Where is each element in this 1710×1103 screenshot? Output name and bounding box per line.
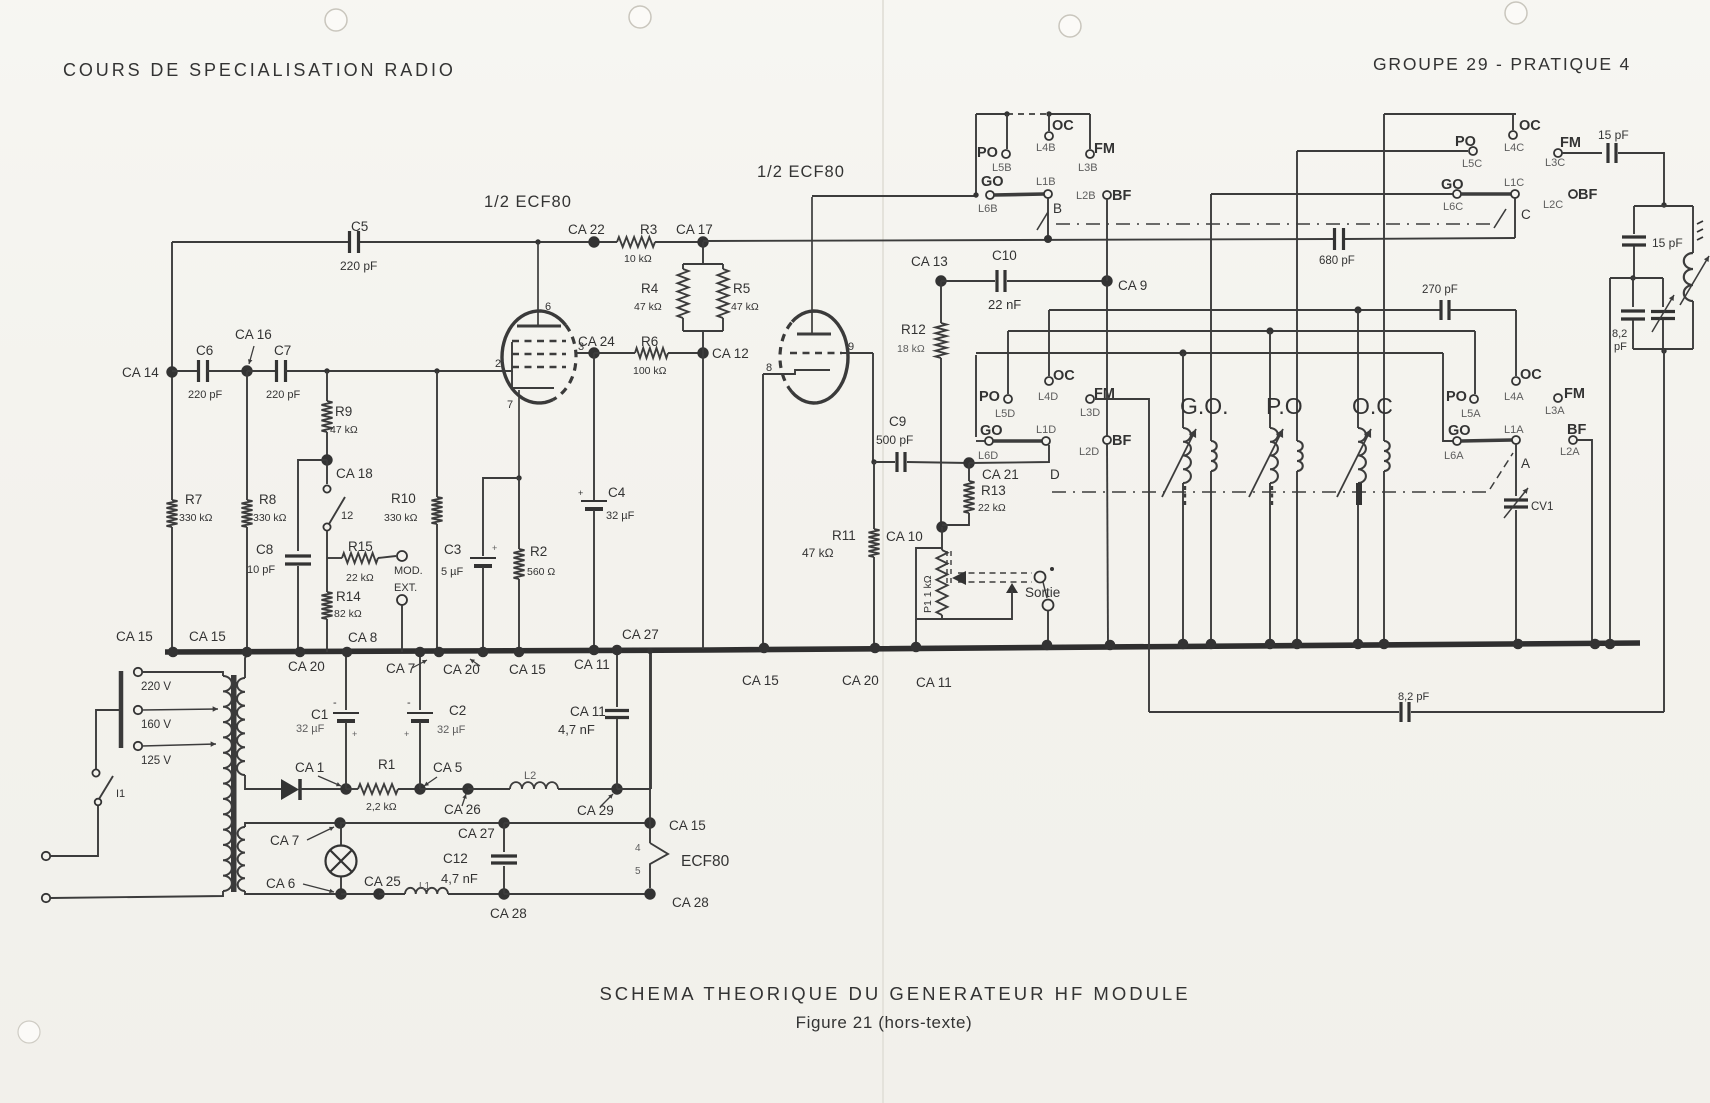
wire lamp bottom lead bbox=[340, 877, 342, 894]
wire G.O. left coil top bbox=[1182, 353, 1184, 428]
svg-text:L4A: L4A bbox=[1504, 391, 1524, 403]
capacitor C10 22nF bbox=[995, 270, 998, 292]
wire OC coil right column upper bbox=[1383, 114, 1385, 441]
wire OC-A column bbox=[1515, 310, 1517, 376]
svg-text:12: 12 bbox=[341, 510, 353, 522]
svg-text:+: + bbox=[404, 729, 409, 739]
svg-text:C7: C7 bbox=[274, 343, 291, 358]
wire stack coil to bottom bar bbox=[1692, 301, 1694, 349]
wire Sortie to bus bbox=[1047, 610, 1049, 644]
wire L1A to CV1 bbox=[1515, 444, 1517, 496]
wire bus to C1 bbox=[345, 652, 347, 710]
gang linkage A wiper diag bbox=[1490, 453, 1513, 489]
O.C core bbox=[1356, 483, 1362, 505]
wire to R11 bbox=[873, 462, 875, 529]
svg-text:22 kΩ: 22 kΩ bbox=[346, 572, 374, 584]
svg-text:FM: FM bbox=[1564, 386, 1585, 402]
wire R7 to bus bbox=[171, 527, 173, 652]
wire CA13 to C10 bbox=[941, 280, 995, 282]
resistor R7 330k bbox=[167, 500, 178, 527]
svg-text:GROUPE 29 - PRATIQUE 4: GROUPE 29 - PRATIQUE 4 bbox=[1373, 54, 1631, 74]
inductor G.O. right coil bbox=[1211, 441, 1217, 471]
svg-text:BF: BF bbox=[1112, 188, 1131, 204]
svg-text:R10: R10 bbox=[391, 491, 416, 506]
svg-text:C12: C12 bbox=[443, 851, 468, 866]
wiper mark B bbox=[1037, 212, 1048, 230]
wire C2 to CA5 bbox=[419, 722, 421, 789]
wire CA26 to L2 bbox=[468, 788, 510, 790]
resistor R2 560 bbox=[514, 549, 525, 579]
svg-text:CA 15: CA 15 bbox=[509, 662, 546, 677]
capacitor C4 32uF bbox=[581, 500, 607, 502]
transformer core bbox=[231, 675, 237, 892]
contact OC L4A bbox=[1512, 377, 1520, 385]
wire CA5 to CA26 bbox=[420, 788, 468, 790]
lamp bbox=[326, 846, 357, 877]
node CA 12 bbox=[697, 347, 708, 358]
capacitor 270 pF bbox=[1439, 300, 1442, 320]
wire C7 to tube pin2 bbox=[285, 370, 503, 372]
tube V1 grid1 lead inner bbox=[503, 342, 512, 371]
svg-text:A: A bbox=[1521, 456, 1530, 471]
node CA 28 right bbox=[644, 888, 655, 899]
contact OC L4D bbox=[1045, 377, 1053, 385]
wire R11 to bus bbox=[873, 557, 875, 650]
svg-text:160 V: 160 V bbox=[141, 719, 171, 731]
node CA 13 bbox=[935, 275, 946, 286]
svg-text:R4: R4 bbox=[641, 281, 659, 296]
junction B top OC bbox=[1046, 111, 1051, 116]
bus junction bbox=[612, 645, 623, 656]
svg-text:47 kΩ: 47 kΩ bbox=[330, 424, 358, 436]
bus junction bbox=[342, 647, 353, 658]
svg-text:L3A: L3A bbox=[1545, 405, 1565, 417]
svg-text:CA 14: CA 14 bbox=[122, 365, 159, 380]
wire to OC-C bbox=[1512, 114, 1514, 130]
svg-text:15 pF: 15 pF bbox=[1652, 236, 1683, 250]
svg-text:SCHEMA THEORIQUE DU GENERATEUR: SCHEMA THEORIQUE DU GENERATEUR HF MODULE bbox=[599, 983, 1190, 1004]
svg-text:L3C: L3C bbox=[1545, 157, 1565, 169]
tube V1 envelope dashed part bbox=[553, 325, 576, 400]
svg-text:CA 20: CA 20 bbox=[443, 662, 480, 677]
wire 15pF to stack top bbox=[1618, 153, 1664, 203]
resistor R8 330k bbox=[242, 500, 253, 527]
wire stack1 right upper bbox=[1692, 206, 1694, 253]
svg-text:P.O: P.O bbox=[1266, 393, 1303, 419]
wire bank B top bar dashed bbox=[1007, 113, 1049, 115]
wire heater bottom left bbox=[245, 891, 341, 894]
wire to R5 bbox=[722, 264, 724, 269]
svg-text:L6C: L6C bbox=[1443, 201, 1463, 213]
wire bank B top bar right bbox=[1049, 113, 1090, 115]
switch S12 blade bbox=[329, 497, 345, 524]
wire stack bottom bar bbox=[1633, 348, 1693, 350]
capacitor C11 4.7nF bbox=[605, 709, 629, 712]
node CA 22 bbox=[588, 236, 599, 247]
svg-text:CA 9: CA 9 bbox=[1118, 278, 1147, 293]
svg-text:CA 1: CA 1 bbox=[295, 760, 324, 775]
svg-text:CA 28: CA 28 bbox=[490, 906, 527, 921]
resistor R10 330k bbox=[432, 497, 443, 524]
wire varcap to bottom bar bbox=[1662, 320, 1664, 349]
svg-text:100 kΩ: 100 kΩ bbox=[633, 365, 667, 377]
P1 wiper terminal bbox=[1035, 572, 1046, 583]
bus junction bbox=[1178, 639, 1189, 650]
junction bank B anode feed bbox=[973, 192, 978, 197]
svg-text:R5: R5 bbox=[733, 281, 750, 296]
wire CA24 down to C4 bbox=[593, 353, 595, 500]
wire CA10 to P1 bbox=[941, 527, 943, 550]
svg-text:CA 13: CA 13 bbox=[911, 254, 948, 269]
node CA 17 bbox=[697, 236, 708, 247]
svg-text:330 kΩ: 330 kΩ bbox=[253, 512, 287, 524]
svg-text:BF: BF bbox=[1578, 187, 1597, 203]
junction R9 top bbox=[324, 368, 329, 373]
tube V2 envelope dashed part bbox=[780, 322, 792, 392]
wire C11 to CA29 bbox=[616, 719, 618, 789]
wire grid rail to R9 bbox=[326, 371, 328, 401]
wire CA16 to C7 bbox=[247, 370, 277, 372]
junction stack bottom bbox=[1661, 348, 1666, 353]
tube V1 screen bar bbox=[517, 325, 561, 328]
svg-text:FM: FM bbox=[1094, 141, 1115, 157]
wire bus to C2 bbox=[419, 652, 421, 710]
contact L1C bbox=[1511, 190, 1519, 198]
svg-text:500 pF: 500 pF bbox=[876, 433, 913, 447]
wire lamp top lead bbox=[340, 823, 342, 845]
wire bus to CA15/heater bbox=[649, 651, 651, 843]
terminal mains 2 bbox=[42, 894, 50, 902]
svg-text:CA 7: CA 7 bbox=[386, 661, 415, 676]
resistor R5 47k bbox=[718, 269, 729, 318]
contact L1A bbox=[1512, 436, 1520, 444]
bus junction bbox=[1590, 639, 1601, 650]
tube V1 pin 6 lead bbox=[537, 242, 539, 326]
svg-text:L1D: L1D bbox=[1036, 424, 1056, 436]
wire to R15 bbox=[327, 557, 342, 559]
svg-text:L4D: L4D bbox=[1038, 391, 1058, 403]
arrow CA16 bbox=[249, 346, 254, 364]
contact FM L3B bbox=[1086, 150, 1094, 158]
svg-text:P1 1 kΩ: P1 1 kΩ bbox=[922, 575, 934, 613]
contact PO L5D bbox=[1004, 395, 1012, 403]
bus junction bbox=[1353, 639, 1364, 650]
tube V2 grid lead bbox=[842, 352, 873, 354]
wire L1 to CA28 bbox=[448, 893, 504, 895]
capacitor 8.2 pF bottom bbox=[1399, 702, 1402, 722]
wire wiper to Sortie bbox=[1043, 582, 1047, 598]
svg-text:COURS DE SPECIALISATION RADIO: COURS DE SPECIALISATION RADIO bbox=[63, 60, 456, 80]
node CA 25 bbox=[373, 888, 384, 899]
svg-text:4,7 nF: 4,7 nF bbox=[558, 722, 595, 737]
svg-text:82 kΩ: 82 kΩ bbox=[334, 608, 362, 620]
tube V2 anode bar bbox=[797, 333, 831, 336]
contact GO L6B bbox=[986, 191, 994, 199]
wiper mark bbox=[1050, 567, 1054, 571]
junction B top PO bbox=[1004, 111, 1009, 116]
P1 top dashes 2 bbox=[950, 551, 952, 585]
svg-text:MOD.: MOD. bbox=[394, 565, 423, 577]
tube V1 grid row 2 bbox=[512, 353, 566, 355]
junction B on HT rail bbox=[1044, 235, 1052, 243]
svg-text:CA 15: CA 15 bbox=[742, 673, 779, 688]
svg-text:EXT.: EXT. bbox=[394, 582, 417, 594]
wire to R2 bbox=[518, 478, 520, 549]
svg-text:R13: R13 bbox=[981, 483, 1006, 498]
rail OC 270pF left bbox=[1049, 309, 1441, 311]
contact PO L5B bbox=[1002, 150, 1010, 158]
capacitor 15 pF stack bbox=[1622, 235, 1646, 238]
wire FM-C to 15pF bbox=[1562, 152, 1602, 154]
svg-text:22 nF: 22 nF bbox=[988, 297, 1021, 312]
capacitor C12 4.7nF bbox=[491, 854, 517, 857]
node CA 27 lamp bbox=[498, 817, 509, 828]
svg-text:GO: GO bbox=[981, 174, 1004, 190]
svg-text:L2C: L2C bbox=[1543, 199, 1563, 211]
wire R9 to CA18 node bbox=[326, 432, 328, 460]
svg-text:R15: R15 bbox=[348, 539, 373, 554]
contact PO L5C bbox=[1469, 147, 1477, 155]
wire G.O. right coil to bus bbox=[1210, 471, 1212, 644]
svg-text:47 kΩ: 47 kΩ bbox=[731, 301, 759, 313]
wire R4 to bottom bar bbox=[682, 318, 684, 331]
svg-text:pF: pF bbox=[1614, 341, 1627, 353]
svg-text:C6: C6 bbox=[196, 343, 213, 358]
terminal 125V bbox=[134, 742, 142, 750]
bus junction bbox=[168, 647, 179, 658]
wire stack bottom to loop bbox=[1663, 349, 1665, 712]
transformer heater winding bbox=[238, 827, 245, 891]
svg-text:CA 27: CA 27 bbox=[622, 627, 659, 642]
svg-text:L5A: L5A bbox=[1461, 408, 1481, 420]
inductor L right stack bbox=[1684, 253, 1693, 301]
contact FM L3D bbox=[1086, 395, 1094, 403]
node CA 24 bbox=[588, 347, 599, 358]
svg-text:FM: FM bbox=[1560, 135, 1581, 151]
P1 top dashes bbox=[946, 551, 948, 585]
arrow CA1 bbox=[318, 776, 341, 786]
node CA 9 bbox=[1101, 275, 1112, 286]
svg-text:L1B: L1B bbox=[1036, 176, 1056, 188]
tube V1 grid row 3 bbox=[512, 366, 566, 368]
tube V2 envelope bbox=[792, 311, 848, 403]
wire to PO-B bbox=[1006, 114, 1008, 149]
junction stack top bbox=[1661, 202, 1666, 207]
bus junction bbox=[1105, 640, 1116, 651]
svg-text:4,7 nF: 4,7 nF bbox=[441, 871, 478, 886]
wire 8.2pF to bottom bar bbox=[1632, 320, 1634, 349]
wire C1 to CA1 bbox=[345, 722, 347, 789]
svg-text:CA 15: CA 15 bbox=[189, 629, 226, 644]
wire C3 to bus bbox=[482, 567, 484, 652]
wire R13 to CA10 bbox=[942, 513, 969, 525]
wire stack2 outer left to bus bbox=[1609, 278, 1611, 644]
wire CA27 to CA15 bbox=[504, 822, 650, 824]
wire R3 to CA17 bbox=[655, 241, 703, 243]
svg-text:CA 20: CA 20 bbox=[842, 673, 879, 688]
svg-text:L6D: L6D bbox=[978, 450, 998, 462]
P.O core dashes bbox=[1271, 486, 1273, 506]
bus junction bbox=[1513, 639, 1524, 650]
svg-text:OC: OC bbox=[1052, 118, 1074, 134]
arrow CA6 bbox=[303, 884, 334, 892]
bus junction bbox=[478, 647, 489, 658]
svg-text:+: + bbox=[492, 543, 497, 553]
svg-text:32 µF: 32 µF bbox=[296, 723, 325, 735]
wire CA24 to R6 bbox=[594, 352, 635, 354]
wire O.C left coil top bbox=[1357, 310, 1359, 428]
wire CA17 to 680pF bbox=[703, 239, 1334, 241]
svg-text:+: + bbox=[352, 729, 357, 739]
svg-text:10 kΩ: 10 kΩ bbox=[624, 253, 652, 265]
P.O arrow bbox=[1249, 429, 1283, 497]
rail OC 270pF right bbox=[1449, 309, 1516, 311]
wire pin8 to bus bbox=[762, 374, 764, 650]
wire to GO-D bbox=[976, 440, 985, 442]
bus junction bbox=[1206, 639, 1217, 650]
transformer primary winding bbox=[223, 676, 232, 891]
svg-text:R11: R11 bbox=[832, 528, 856, 543]
node CA 15 lamp bbox=[644, 817, 655, 828]
wire diode to CA1 bbox=[300, 788, 344, 790]
wire CA16 down bbox=[246, 371, 248, 500]
svg-text:CA 16: CA 16 bbox=[235, 327, 272, 342]
wire to C9 bbox=[874, 461, 895, 463]
wire OC-D column bbox=[1048, 310, 1050, 376]
tube V1 pin 7 lead bbox=[518, 390, 520, 478]
bus junction bbox=[1265, 639, 1276, 650]
svg-text:CA 11: CA 11 bbox=[574, 657, 610, 672]
transformer HT secondary winding bbox=[237, 678, 245, 775]
wire CA28 to CA28b bbox=[504, 893, 650, 895]
wire bank D feed column bbox=[975, 355, 977, 437]
svg-text:PO: PO bbox=[1446, 389, 1467, 405]
wire CA1 to R1 bbox=[346, 788, 358, 790]
junction R10 top bbox=[434, 368, 439, 373]
svg-text:270 pF: 270 pF bbox=[1422, 284, 1458, 296]
svg-text:15 pF: 15 pF bbox=[1598, 128, 1629, 142]
svg-text:C3: C3 bbox=[444, 542, 461, 557]
svg-text:PO: PO bbox=[977, 145, 998, 161]
O.C arrow bbox=[1337, 429, 1371, 497]
contact BF L2A bbox=[1569, 436, 1577, 444]
svg-text:BF: BF bbox=[1567, 422, 1586, 438]
svg-text:L2: L2 bbox=[524, 770, 536, 782]
tube V1 grid row 1 bbox=[512, 340, 566, 342]
wire R6 to CA12 bbox=[668, 352, 703, 354]
wire GO-C feed bbox=[1211, 193, 1453, 195]
svg-text:L5B: L5B bbox=[992, 162, 1012, 174]
wire to FM-B bbox=[1089, 114, 1091, 149]
wire R1 to CA5 bbox=[398, 788, 420, 790]
svg-text:L3B: L3B bbox=[1078, 162, 1098, 174]
wire C5 rail to R3 bbox=[359, 241, 617, 243]
wire R4R5 top bar bbox=[683, 263, 723, 265]
wire bank B feed bbox=[975, 114, 977, 194]
svg-text:CA 24: CA 24 bbox=[578, 334, 615, 349]
svg-text:CA 8: CA 8 bbox=[348, 630, 377, 645]
svg-text:CA 21: CA 21 bbox=[982, 467, 1019, 482]
wire heater top left bbox=[245, 823, 340, 827]
gang linkage D-A bbox=[1052, 491, 1488, 493]
svg-text:D: D bbox=[1050, 467, 1060, 482]
svg-text:6: 6 bbox=[545, 301, 551, 313]
wire P.O left coil top bbox=[1269, 331, 1271, 428]
bus junction bbox=[911, 642, 922, 653]
wire C9 to CA21 bbox=[907, 462, 969, 463]
wire to 8.2pF bbox=[1632, 278, 1634, 307]
wire BF-D up to CA9 bbox=[1106, 285, 1108, 436]
svg-text:I1: I1 bbox=[116, 788, 125, 800]
contact GO L6D bbox=[985, 437, 993, 445]
svg-text:CV1: CV1 bbox=[1531, 501, 1553, 513]
switch S12 contact top bbox=[323, 485, 330, 492]
wire FM-D to bottom loop bbox=[1095, 399, 1149, 712]
wire to R4 bbox=[682, 264, 684, 269]
svg-text:CA 6: CA 6 bbox=[266, 876, 295, 891]
wire HT secondary bottom to diode bbox=[245, 775, 281, 789]
wire C6 to CA16 bbox=[207, 370, 247, 372]
resistor R12 18k bbox=[936, 323, 947, 358]
capacitor 15 pF top bbox=[1606, 143, 1609, 163]
bus junction bbox=[434, 647, 445, 658]
svg-text:L6A: L6A bbox=[1444, 450, 1464, 462]
svg-text:OC: OC bbox=[1520, 367, 1542, 383]
svg-text:C8: C8 bbox=[256, 542, 273, 557]
wire P1 bracket bbox=[916, 548, 942, 619]
ECF80 heater pins 4-5 bbox=[650, 843, 668, 888]
switch bar D bbox=[993, 439, 1042, 443]
svg-text:CA 20: CA 20 bbox=[288, 659, 325, 674]
inductor P.O left coil bbox=[1270, 428, 1278, 483]
svg-text:CA 28: CA 28 bbox=[672, 895, 709, 910]
gang linkage B-C bbox=[1056, 223, 1496, 225]
svg-text:L3D: L3D bbox=[1080, 407, 1100, 419]
capacitor 8.2 pF stack bbox=[1621, 309, 1645, 312]
svg-text:OC: OC bbox=[1519, 118, 1541, 134]
svg-text:PO: PO bbox=[979, 389, 1000, 405]
wire PO-C feed bbox=[1297, 150, 1468, 152]
svg-text:C: C bbox=[1521, 207, 1531, 222]
bus junction bbox=[1292, 639, 1303, 650]
svg-text:8,2: 8,2 bbox=[1612, 328, 1627, 340]
wire R12 to CA10 bbox=[940, 358, 942, 527]
svg-text:CA 17: CA 17 bbox=[676, 222, 713, 237]
junction GO coil bbox=[1179, 349, 1186, 356]
switch bar A bbox=[1461, 440, 1512, 441]
node CA 18 junction bbox=[321, 454, 332, 465]
switch bar C bbox=[1461, 192, 1511, 196]
wire bank C top bar bbox=[1384, 113, 1516, 115]
svg-text:1/2 ECF80: 1/2 ECF80 bbox=[484, 193, 572, 211]
junction pin7 R2 C3 bbox=[516, 475, 521, 480]
bus junction bbox=[589, 645, 600, 656]
svg-text:4: 4 bbox=[635, 843, 641, 854]
svg-text:BF: BF bbox=[1112, 433, 1131, 449]
svg-text:7: 7 bbox=[507, 399, 513, 411]
svg-text:L2A: L2A bbox=[1560, 446, 1580, 458]
rail GO bbox=[976, 352, 1443, 354]
svg-text:680 pF: 680 pF bbox=[1319, 255, 1355, 267]
tube V1 cathode bbox=[512, 371, 554, 388]
wire switch to terminal bbox=[51, 806, 98, 856]
resistor R9 47k bbox=[322, 401, 333, 432]
bus junction bbox=[870, 643, 881, 654]
P1 wiper dash upper bbox=[958, 572, 1032, 574]
wire L2 to CA29 bbox=[558, 788, 617, 790]
wire 160V tap bbox=[142, 709, 218, 710]
wire to OC-B bbox=[1048, 114, 1050, 131]
